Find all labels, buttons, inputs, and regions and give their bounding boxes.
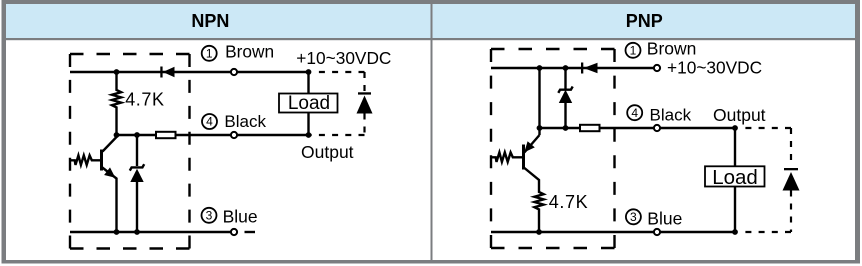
svg-text:1: 1: [630, 44, 637, 58]
label 3 Blue PNP: [626, 209, 682, 229]
node dot blue emitter: [114, 229, 120, 235]
diode D2 on brown wire (pointing left): [581, 63, 583, 74]
svg-text:PNP: PNP: [626, 11, 663, 31]
label 4 Black PNP: [627, 105, 691, 124]
svg-text:Blue: Blue: [647, 209, 682, 229]
label 1 Brown NPN: [202, 42, 274, 62]
node dot black zener: [563, 125, 569, 131]
transistor Q1 base bar: [100, 150, 103, 171]
junction dot blue-load PNP: [732, 229, 738, 235]
wire blue stub dash: [245, 231, 256, 233]
node dot black zener: [134, 132, 140, 138]
node dot blue collector: [536, 229, 542, 235]
label 1 Brown PNP: [626, 39, 697, 59]
junction dot black-load PNP: [732, 125, 738, 131]
svg-text:Load: Load: [288, 93, 330, 114]
flyback diode NPN: [358, 92, 371, 94]
svg-text:Blue: Blue: [223, 207, 258, 227]
header separator: [6, 38, 855, 40]
wire blue bottom PNP: [491, 231, 735, 233]
terminal 4 black NPN: [231, 132, 237, 138]
vertical emitter feed PNP: [538, 68, 540, 135]
resistor box on black wire PNP: [580, 125, 600, 131]
sensor dashed box NPN: [70, 54, 190, 249]
diode D1 on brown wire (pointing left): [160, 67, 162, 78]
load branch vertical PNP: [734, 128, 736, 232]
load box PNP: [705, 166, 765, 186]
svg-text:4: 4: [206, 115, 213, 129]
emitter arrow Q2: [524, 141, 535, 152]
header cell NPN: [6, 4, 431, 38]
svg-text:Output: Output: [301, 142, 354, 162]
transistor Q2 base bar: [522, 145, 525, 170]
svg-text:Output: Output: [713, 105, 766, 125]
terminal 3 blue PNP: [654, 229, 660, 235]
terminal 4 black PNP: [654, 125, 660, 131]
node dot top: [114, 69, 120, 75]
load dashed loop PNP: [740, 128, 791, 232]
transistor Q2 emitter diagonal: [524, 135, 539, 153]
terminal 3 blue NPN: [231, 229, 237, 235]
transistor Q1 base resistor wire: [70, 155, 101, 165]
terminal 1 brown NPN: [231, 69, 237, 75]
header cell PNP: [433, 4, 856, 38]
load box NPN: [279, 94, 338, 113]
zener diode PNP: [558, 68, 572, 128]
load branch vertical NPN: [307, 72, 309, 135]
label 4 Black NPN: [202, 112, 266, 131]
svg-text:4.7K: 4.7K: [549, 192, 588, 212]
zener ZD triangle: [130, 169, 143, 182]
zener diode ZD: [130, 135, 144, 232]
svg-text:3: 3: [206, 209, 213, 223]
node dot black left: [114, 132, 120, 138]
emitter arrow Q1: [104, 167, 115, 177]
transistor Q2 collector and 4.7K resistor: [524, 168, 544, 233]
svg-text:4: 4: [631, 106, 638, 120]
zener ZD2 triangle: [559, 90, 572, 103]
svg-text:Brown: Brown: [225, 42, 274, 62]
node dot black emitter: [537, 125, 543, 131]
transistor Q1 collector: [103, 135, 117, 152]
transistor Q2 base resistor wire: [491, 152, 523, 162]
junction dot brown-load: [306, 69, 312, 75]
svg-text:+10~30VDC: +10~30VDC: [667, 58, 762, 78]
svg-text:Black: Black: [224, 112, 266, 131]
wire brown top PNP: [491, 67, 654, 69]
wire black output PNP: [540, 127, 736, 129]
resistor box on black wire NPN: [156, 132, 176, 138]
wire black output: [117, 134, 309, 136]
wire brown top: [70, 71, 309, 73]
wire blue bottom: [70, 231, 231, 233]
node dot brown emitter: [537, 65, 543, 71]
label 3 Blue NPN: [202, 207, 258, 227]
resistor R 4.7K vertical: [112, 72, 121, 135]
load dashed loop NPN: [309, 72, 365, 135]
transistor Q1 emitter: [102, 168, 116, 233]
flyback diode PNP: [784, 168, 798, 170]
svg-text:Load: Load: [712, 166, 758, 189]
svg-text:3: 3: [630, 210, 637, 224]
svg-text:Black: Black: [650, 105, 692, 124]
node dot blue zener: [134, 229, 140, 235]
junction dot black-load: [306, 132, 312, 138]
sensor dashed box PNP: [491, 49, 615, 248]
svg-text:+10~30VDC: +10~30VDC: [296, 48, 391, 68]
svg-text:1: 1: [206, 47, 213, 61]
svg-text:Brown: Brown: [647, 39, 697, 59]
node dot brown zener: [563, 65, 569, 71]
terminal 1 brown PNP: [654, 65, 660, 71]
svg-text:4.7K: 4.7K: [125, 90, 164, 110]
svg-text:NPN: NPN: [191, 11, 229, 31]
